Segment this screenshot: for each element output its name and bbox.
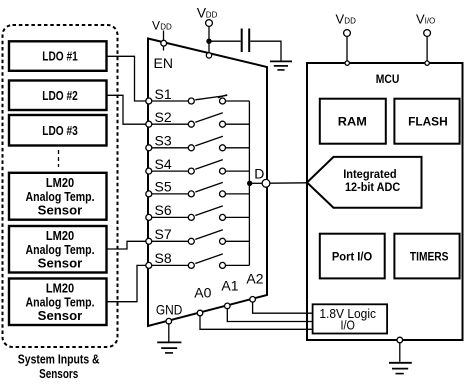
svg-text:12-bit ADC: 12-bit ADC: [345, 180, 401, 194]
svg-text:A0: A0: [194, 284, 211, 300]
svg-text:DD: DD: [160, 22, 172, 31]
svg-text:LM20: LM20: [46, 281, 74, 296]
svg-text:S1: S1: [155, 86, 172, 102]
svg-text:LDO #1: LDO #1: [42, 49, 78, 64]
svg-text:S5: S5: [155, 179, 172, 195]
svg-text:System Inputs &: System Inputs &: [18, 352, 100, 367]
svg-text:DD: DD: [344, 17, 356, 26]
svg-text:S3: S3: [155, 133, 172, 149]
svg-text:MCU: MCU: [376, 72, 400, 86]
svg-text:Integrated: Integrated: [343, 167, 396, 181]
svg-text:S6: S6: [155, 202, 172, 218]
svg-text:Analog Temp.: Analog Temp.: [26, 294, 95, 309]
svg-text:LM20: LM20: [46, 175, 74, 190]
svg-text:S2: S2: [155, 109, 172, 125]
svg-text:LDO #2: LDO #2: [42, 88, 78, 103]
svg-text:S7: S7: [155, 226, 172, 242]
svg-text:Analog Temp.: Analog Temp.: [26, 189, 95, 204]
svg-text:V: V: [336, 12, 345, 27]
svg-text:FLASH: FLASH: [408, 114, 448, 128]
svg-text:RAM: RAM: [338, 114, 367, 128]
svg-text:Analog Temp.: Analog Temp.: [26, 242, 95, 257]
svg-text:S8: S8: [155, 250, 172, 266]
svg-text:EN: EN: [154, 55, 173, 71]
svg-text:S4: S4: [155, 156, 172, 172]
svg-text:GND: GND: [156, 302, 183, 318]
svg-text:Sensor: Sensor: [38, 256, 83, 271]
svg-text:LDO #3: LDO #3: [42, 123, 78, 138]
svg-text:I/O: I/O: [425, 17, 436, 26]
svg-text:LM20: LM20: [46, 228, 74, 243]
svg-text:DD: DD: [206, 11, 218, 20]
svg-text:V: V: [152, 18, 160, 32]
svg-text:TIMERS: TIMERS: [410, 249, 449, 263]
svg-text:A1: A1: [221, 277, 238, 293]
svg-text:I/O: I/O: [341, 318, 355, 333]
svg-text:A2: A2: [246, 270, 263, 286]
svg-text:Sensor: Sensor: [38, 308, 83, 323]
svg-text:Sensors: Sensors: [39, 366, 78, 381]
svg-text:Sensor: Sensor: [38, 203, 83, 218]
svg-text:Port I/O: Port I/O: [332, 249, 372, 263]
svg-text:D: D: [254, 165, 264, 181]
